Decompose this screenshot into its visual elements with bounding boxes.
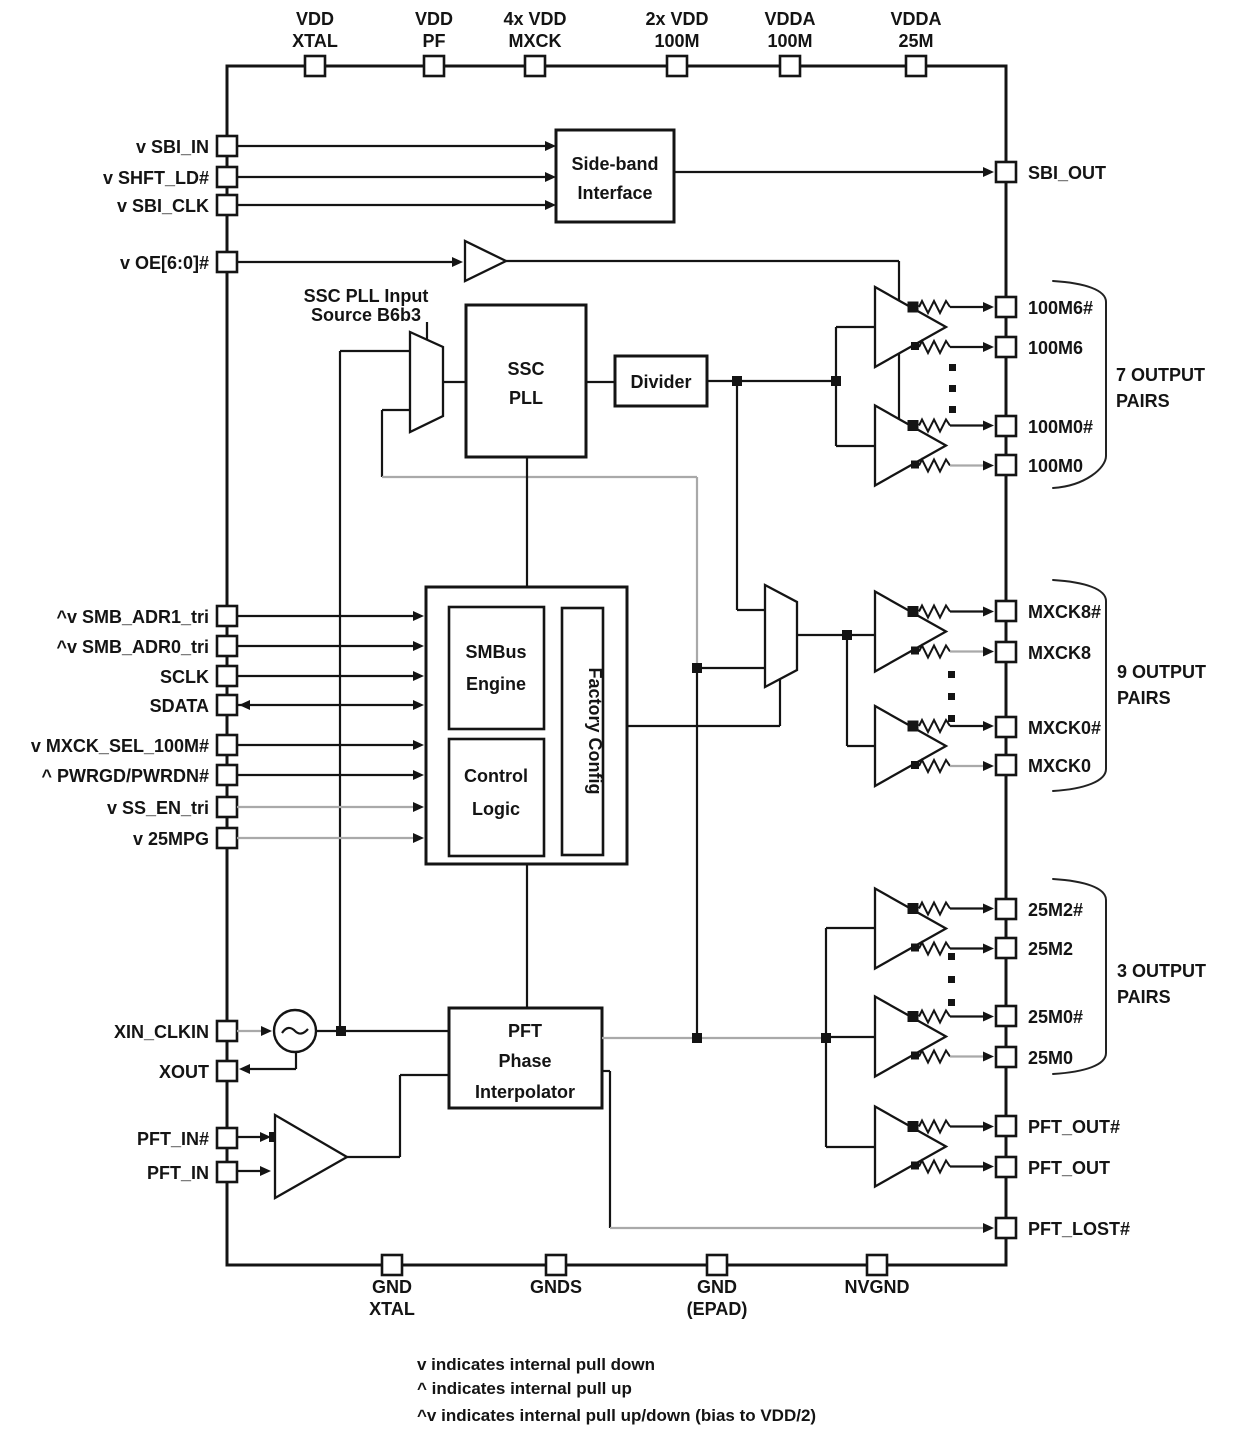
wire MXCK_SEL_100M# to SMBus block <box>237 740 424 750</box>
wire SSC PLL to SMBus block <box>526 457 528 587</box>
svg-text:MXCK8#: MXCK8# <box>1028 602 1101 622</box>
pin ^v SMB_ADR0_tri (left) <box>56 636 237 657</box>
svg-text:Engine: Engine <box>466 674 526 694</box>
pin GND XTAL (bottom) <box>369 1255 415 1319</box>
buffer OE <box>465 241 506 281</box>
wire PFT buffer to PFT interpolator <box>347 1075 449 1157</box>
svg-text:v SBI_IN: v SBI_IN <box>136 137 209 157</box>
node 100M driver input bracket <box>836 327 875 446</box>
svg-text:SMBus: SMBus <box>465 642 526 662</box>
block Side-band Interface <box>556 130 674 222</box>
svg-text:XIN_CLKIN: XIN_CLKIN <box>114 1022 209 1042</box>
svg-text:GND: GND <box>372 1277 412 1297</box>
svg-text:Logic: Logic <box>472 799 520 819</box>
wire oscillator to XOUT <box>239 1052 296 1074</box>
wire SBI_IN to Side-band Interface <box>237 141 556 151</box>
svg-text:v SHFT_LD#: v SHFT_LD# <box>103 168 209 188</box>
wire oscillator to PFT interpolator <box>316 1026 449 1036</box>
svg-text:25M0: 25M0 <box>1028 1048 1073 1068</box>
svg-text:SSC PLL Input: SSC PLL Input <box>304 286 429 306</box>
svg-text:v SBI_CLK: v SBI_CLK <box>117 196 209 216</box>
pin 2x VDD 100M (top) <box>645 9 708 76</box>
pin VDDA 25M (top) <box>890 9 941 76</box>
node 25M driver input bracket <box>826 928 875 1147</box>
svg-text:Factory Config: Factory Config <box>585 667 605 794</box>
svg-text:PFT_OUT: PFT_OUT <box>1028 1158 1110 1178</box>
svg-text:MXCK8: MXCK8 <box>1028 643 1091 663</box>
pin ^ PWRGD/PWRDN# (left) <box>41 765 237 786</box>
driver 100M6#/100M6 <box>875 287 994 367</box>
pin GNDS (bottom) <box>530 1255 582 1297</box>
block Control Logic <box>449 739 544 856</box>
wire feedback to SSC mux bottom input <box>382 410 410 477</box>
pin v MXCK_SEL_100M# (left) <box>31 735 237 756</box>
brace 9 OUTPUT PAIRS <box>1053 580 1106 791</box>
svg-text:100M6#: 100M6# <box>1028 298 1093 318</box>
pin PFT_IN (left) <box>147 1162 237 1183</box>
pin v SBI_IN (left) <box>136 136 237 157</box>
pin v SBI_CLK (left) <box>117 195 237 216</box>
svg-text:v indicates internal pull down: v indicates internal pull down <box>417 1355 655 1374</box>
wire feedback vertical (gray) <box>696 477 698 668</box>
node MXCK driver input bracket <box>847 635 875 746</box>
svg-text:PFT_LOST#: PFT_LOST# <box>1028 1219 1130 1239</box>
pin 100M6 (right) <box>996 337 1083 358</box>
svg-text:Side-band: Side-band <box>571 154 658 174</box>
svg-text:25M: 25M <box>898 31 933 51</box>
svg-text:PFT: PFT <box>508 1021 542 1041</box>
pin PFT_OUT# (right) <box>996 1116 1120 1137</box>
wire SS_EN_tri to SMBus block <box>237 802 424 812</box>
svg-text:SBI_OUT: SBI_OUT <box>1028 163 1106 183</box>
svg-text:v OE[6:0]#: v OE[6:0]# <box>120 253 209 273</box>
svg-text:v MXCK_SEL_100M#: v MXCK_SEL_100M# <box>31 736 209 756</box>
pin MXCK8# (right) <box>996 601 1101 622</box>
ellipsis 25M <box>948 953 955 1006</box>
wire PFT interpolator output (gray) to 25M drivers <box>602 1033 831 1043</box>
svg-text:(EPAD): (EPAD) <box>687 1299 748 1319</box>
svg-text:PFT_OUT#: PFT_OUT# <box>1028 1117 1120 1137</box>
pin VDDA 100M (top) <box>764 9 815 76</box>
pin 25M0 (right) <box>996 1047 1073 1068</box>
pin v 25MPG (left) <box>133 828 237 849</box>
pin SCLK (left) <box>160 666 237 687</box>
pin 100M0# (right) <box>996 416 1093 437</box>
svg-text:100M: 100M <box>767 31 812 51</box>
block Divider <box>615 356 707 406</box>
driver 25M2#/25M2 <box>875 889 994 969</box>
wire SSC PLL to Divider <box>586 381 615 383</box>
svg-text:100M0#: 100M0# <box>1028 417 1093 437</box>
svg-text:GNDS: GNDS <box>530 1277 582 1297</box>
wire OE[6:0]# to OE buffer <box>237 257 463 267</box>
svg-text:PLL: PLL <box>509 388 543 408</box>
pin MXCK0# (right) <box>996 717 1101 738</box>
svg-text:100M: 100M <box>654 31 699 51</box>
svg-text:^v indicates internal pull up/: ^v indicates internal pull up/down (bias… <box>417 1406 816 1425</box>
pin SBI_OUT (right) <box>996 162 1106 183</box>
wire XIN clock to SSC mux top input <box>340 351 410 1031</box>
buffer PFT input <box>275 1115 347 1198</box>
wire SMB_ADR1_tri to SMBus block <box>237 611 424 621</box>
wire Divider branch down to MXCK mux <box>737 381 765 610</box>
brace 7 OUTPUT PAIRS <box>1053 281 1106 488</box>
block SMBus/Control/FactoryConfig container <box>426 587 627 864</box>
pin 25M2# (right) <box>996 899 1083 920</box>
pin VDD PF (top) <box>415 9 453 76</box>
pin PFT_IN# (left) <box>137 1128 237 1149</box>
svg-text:XOUT: XOUT <box>159 1062 209 1082</box>
block PFT Phase Interpolator <box>449 1008 602 1108</box>
pin 100M0 (right) <box>996 455 1083 476</box>
svg-text:100M6: 100M6 <box>1028 338 1083 358</box>
wire SHFT_LD# to Side-band Interface <box>237 172 556 182</box>
pin PFT_OUT (right) <box>996 1157 1110 1178</box>
svg-text:4x VDD: 4x VDD <box>503 9 566 29</box>
svg-text:SCLK: SCLK <box>160 667 209 687</box>
svg-text:VDD: VDD <box>296 9 334 29</box>
wire feedback horizontal (gray) <box>382 476 697 478</box>
mux U-MXCK <box>765 585 797 687</box>
svg-text:Source B6b3: Source B6b3 <box>311 305 421 325</box>
svg-text:PF: PF <box>422 31 445 51</box>
wire PFT_LOST# <box>602 1071 994 1233</box>
wire Side-band Interface to SBI_OUT <box>674 167 994 177</box>
driver MXCK0#/MXCK0 <box>875 706 994 786</box>
driver 100M0#/100M0 <box>875 406 994 486</box>
wire XIN_CLKIN to oscillator <box>237 1026 272 1036</box>
ellipsis MXCK <box>948 671 955 722</box>
pin v OE[6:0]# (left) <box>120 252 237 273</box>
pin MXCK0 (right) <box>996 755 1091 776</box>
wire SSC mux output to SSC PLL <box>443 381 466 383</box>
oscillator (crystal osc) <box>274 1010 316 1052</box>
pin 25M0# (right) <box>996 1006 1083 1027</box>
pin XOUT (left) <box>159 1061 237 1082</box>
svg-text:SDATA: SDATA <box>150 696 209 716</box>
wire PWRGD/PWRDN# to SMBus block <box>237 770 424 780</box>
svg-text:PAIRS: PAIRS <box>1117 688 1171 708</box>
svg-text:Interface: Interface <box>577 183 652 203</box>
svg-text:100M0: 100M0 <box>1028 456 1083 476</box>
pin SDATA (left) <box>150 695 237 716</box>
svg-text:2x VDD: 2x VDD <box>645 9 708 29</box>
driver PFT_OUT#/PFT_OUT <box>875 1107 994 1187</box>
wire PFT_IN# to PFT buffer <box>237 1132 279 1142</box>
svg-text:PAIRS: PAIRS <box>1116 391 1170 411</box>
svg-text:VDDA: VDDA <box>764 9 815 29</box>
pin 4x VDD MXCK (top) <box>503 9 566 76</box>
svg-text:^v SMB_ADR0_tri: ^v SMB_ADR0_tri <box>56 637 209 657</box>
svg-text:PAIRS: PAIRS <box>1117 987 1171 1007</box>
pin v SHFT_LD# (left) <box>103 167 237 188</box>
svg-text:25M0#: 25M0# <box>1028 1007 1083 1027</box>
pin NVGND (bottom) <box>844 1255 909 1297</box>
pin XIN_CLKIN (left) <box>114 1021 237 1042</box>
svg-text:9 OUTPUT: 9 OUTPUT <box>1117 662 1206 682</box>
wire 25M clock to MXCK mux bottom input <box>692 663 765 1038</box>
label 3 OUTPUT PAIRS <box>1117 961 1206 1007</box>
svg-text:Divider: Divider <box>630 372 691 392</box>
wire PFT_IN to PFT buffer <box>237 1166 271 1176</box>
svg-text:VDD: VDD <box>415 9 453 29</box>
svg-text:Interpolator: Interpolator <box>475 1082 575 1102</box>
svg-text:Phase: Phase <box>498 1051 551 1071</box>
svg-text:^ indicates internal pull up: ^ indicates internal pull up <box>417 1379 632 1398</box>
svg-text:MXCK0: MXCK0 <box>1028 756 1091 776</box>
wire SMBus block to PFT interpolator <box>526 864 528 1008</box>
block SMBus Engine <box>449 607 544 729</box>
block Factory Config <box>562 608 605 855</box>
wire SBI_CLK to Side-band Interface <box>237 200 556 210</box>
svg-text:^ PWRGD/PWRDN#: ^ PWRGD/PWRDN# <box>41 766 209 786</box>
pin GND (EPAD) (bottom) <box>687 1255 748 1319</box>
wire Divider to 100M drivers <box>707 376 841 386</box>
pin PFT_LOST# (right) <box>996 1218 1130 1239</box>
label 7 OUTPUT PAIRS <box>1116 365 1205 411</box>
svg-text:25M2#: 25M2# <box>1028 900 1083 920</box>
pin ^v SMB_ADR1_tri (left) <box>56 606 237 627</box>
svg-text:25M2: 25M2 <box>1028 939 1073 959</box>
pin MXCK8 (right) <box>996 642 1091 663</box>
svg-text:PFT_IN#: PFT_IN# <box>137 1129 209 1149</box>
svg-text:7 OUTPUT: 7 OUTPUT <box>1116 365 1205 385</box>
label 9 OUTPUT PAIRS <box>1117 662 1206 708</box>
svg-text:MXCK0#: MXCK0# <box>1028 718 1101 738</box>
svg-text:NVGND: NVGND <box>844 1277 909 1297</box>
wire OE buffer to 100M0 driver <box>506 261 899 419</box>
ellipsis 100M <box>949 364 956 413</box>
wire SMB_ADR0_tri to SMBus block <box>237 641 424 651</box>
pin 100M6# (right) <box>996 297 1093 318</box>
IC boundary box <box>227 66 1006 1265</box>
svg-text:PFT_IN: PFT_IN <box>147 1163 209 1183</box>
driver 25M0#/25M0 <box>875 997 994 1077</box>
brace 3 OUTPUT PAIRS <box>1053 879 1106 1074</box>
svg-text:^v SMB_ADR1_tri: ^v SMB_ADR1_tri <box>56 607 209 627</box>
pin VDD XTAL (top) <box>292 9 338 76</box>
wire mux select stub <box>426 322 428 340</box>
driver MXCK8#/MXCK8 <box>875 592 994 672</box>
svg-text:v 25MPG: v 25MPG <box>133 829 209 849</box>
svg-text:GND: GND <box>697 1277 737 1297</box>
svg-text:VDDA: VDDA <box>890 9 941 29</box>
svg-text:3 OUTPUT: 3 OUTPUT <box>1117 961 1206 981</box>
pin v SS_EN_tri (left) <box>107 797 237 818</box>
svg-text:XTAL: XTAL <box>369 1299 415 1319</box>
svg-text:MXCK: MXCK <box>509 31 562 51</box>
svg-text:SSC: SSC <box>507 359 544 379</box>
wire SDATA to SMBus block <box>237 700 424 710</box>
block SSC PLL <box>466 305 586 457</box>
label SSC PLL Input Source B6b3 <box>304 286 429 325</box>
svg-text:v SS_EN_tri: v SS_EN_tri <box>107 798 209 818</box>
wire 25MPG to SMBus block <box>237 833 424 843</box>
svg-text:XTAL: XTAL <box>292 31 338 51</box>
mux U-SSC-input <box>410 332 443 432</box>
wire SCLK to SMBus block <box>237 671 424 681</box>
wire MXCK mux output <box>797 630 875 640</box>
svg-text:Control: Control <box>464 766 528 786</box>
pin 25M2 (right) <box>996 938 1073 959</box>
wire factory config select to MXCK mux <box>627 679 780 726</box>
